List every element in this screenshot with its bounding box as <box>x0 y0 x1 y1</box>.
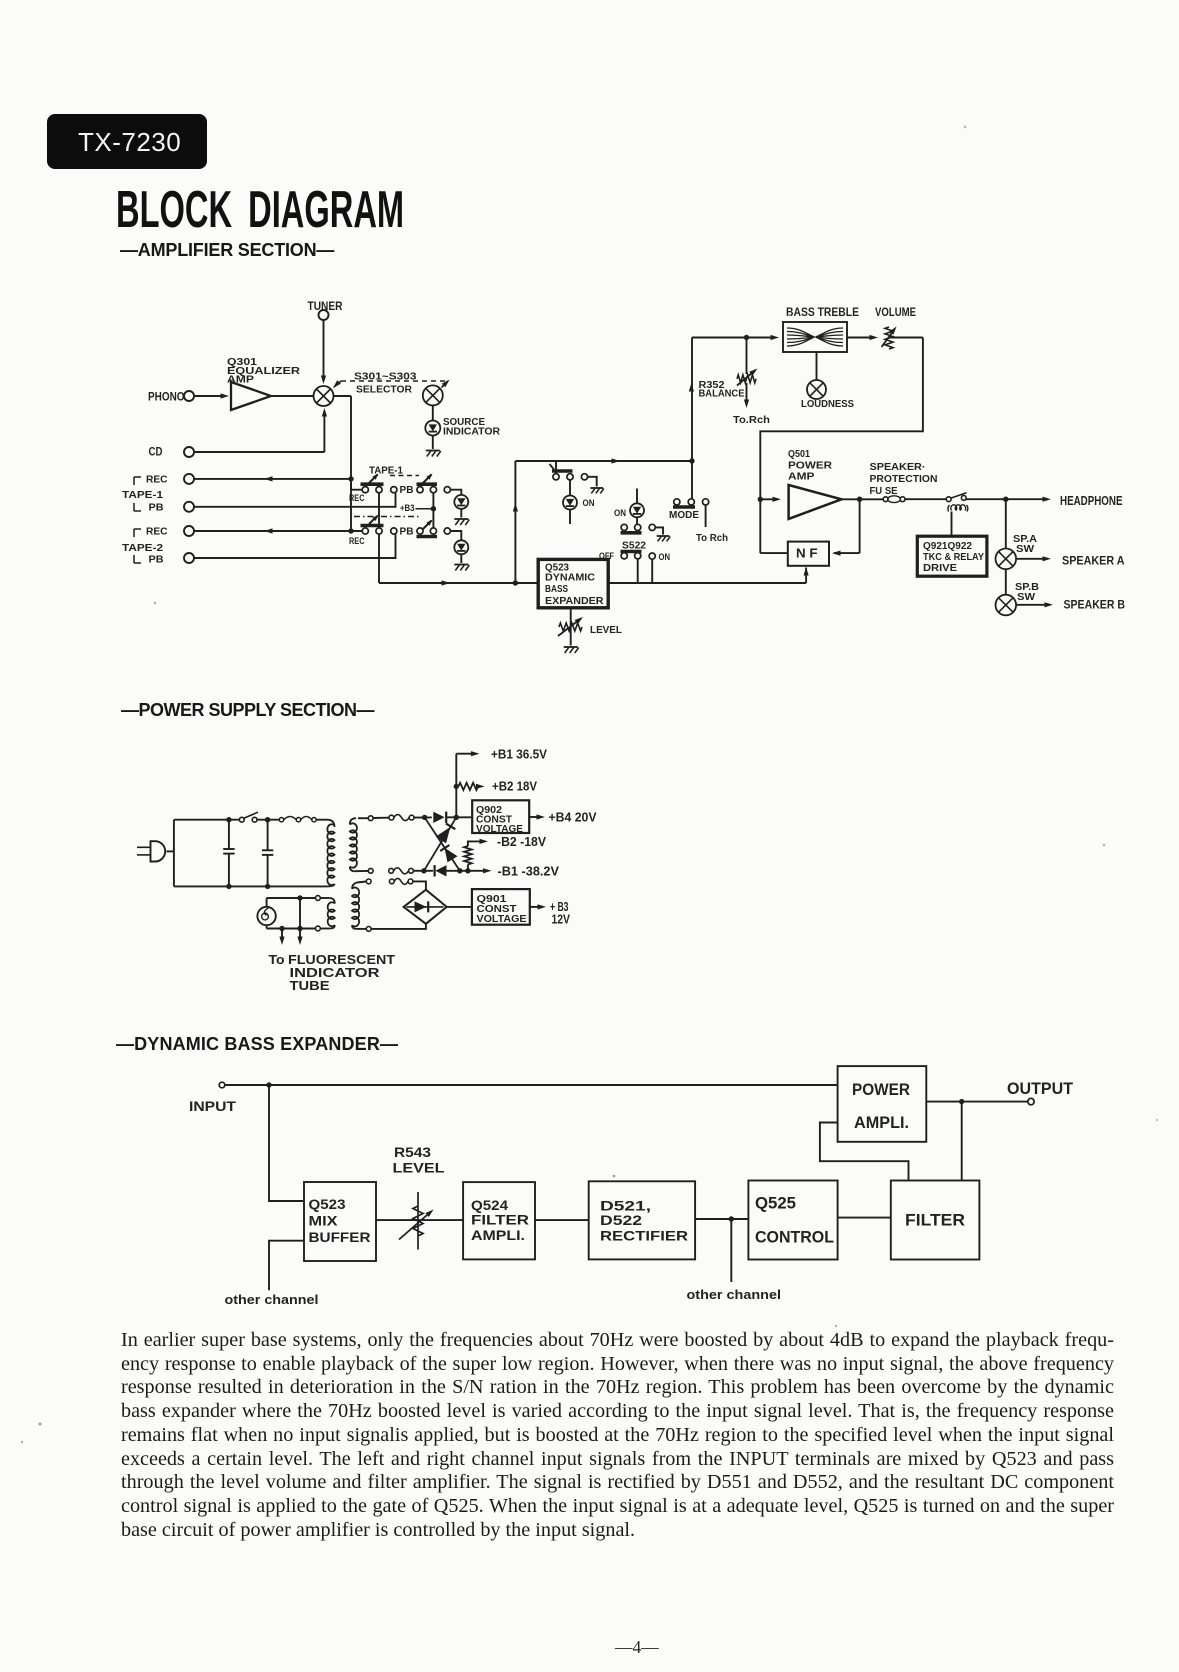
svg-text:VOLTAGE: VOLTAGE <box>477 913 527 925</box>
svg-text:SPEAKER B: SPEAKER B <box>1064 600 1126 612</box>
svg-text:SPEAKER·: SPEAKER· <box>870 462 926 473</box>
svg-text:TAPE-1: TAPE-1 <box>122 489 163 501</box>
svg-text:-B2 -18V: -B2 -18V <box>497 834 546 849</box>
svg-text:Q921Q922: Q921Q922 <box>923 541 972 552</box>
svg-text:To: To <box>269 953 285 967</box>
svg-text:CD: CD <box>149 447 163 459</box>
svg-text:AMPLI.: AMPLI. <box>854 1113 909 1132</box>
svg-text:PHONO: PHONO <box>148 390 185 404</box>
svg-text:+B1 36.5V: +B1 36.5V <box>491 747 547 762</box>
svg-text:REC: REC <box>349 493 365 504</box>
svg-text:+B2 18V: +B2 18V <box>492 779 537 794</box>
svg-text:N F: N F <box>796 546 818 561</box>
svg-text:REC: REC <box>349 536 365 547</box>
svg-text:PB: PB <box>149 554 164 566</box>
svg-text:DYNAMIC: DYNAMIC <box>545 573 595 584</box>
svg-text:INPUT: INPUT <box>189 1098 237 1114</box>
svg-text:DRIVE: DRIVE <box>923 563 957 574</box>
svg-text:BASS: BASS <box>545 584 568 595</box>
svg-text:other channel: other channel <box>687 1287 782 1302</box>
svg-text:LEVEL: LEVEL <box>393 1160 446 1176</box>
svg-text:LEVEL: LEVEL <box>590 624 623 636</box>
svg-text:SPEAKER A: SPEAKER A <box>1062 556 1125 568</box>
svg-text:+B4 20V: +B4 20V <box>549 810 597 825</box>
svg-text:VOLTAGE: VOLTAGE <box>476 824 523 835</box>
svg-text:ON: ON <box>614 508 626 519</box>
svg-text:VOLUME: VOLUME <box>875 305 916 319</box>
svg-text:TAPE-1: TAPE-1 <box>369 465 403 476</box>
svg-text:To.Rch: To.Rch <box>733 415 770 426</box>
svg-text:BASS TREBLE: BASS TREBLE <box>786 305 859 319</box>
svg-text:FLUORESCENT: FLUORESCENT <box>288 953 395 967</box>
svg-text:Q525: Q525 <box>755 1194 796 1213</box>
svg-text:PB: PB <box>149 502 164 514</box>
svg-text:12V: 12V <box>552 913 571 927</box>
svg-text:POWER: POWER <box>852 1080 910 1099</box>
svg-text:PB: PB <box>400 527 414 538</box>
svg-text:AMP: AMP <box>788 472 815 483</box>
svg-text:MIX: MIX <box>309 1213 339 1229</box>
svg-text:R543: R543 <box>394 1144 431 1160</box>
svg-text:FILTER: FILTER <box>471 1212 529 1228</box>
svg-text:To Rch: To Rch <box>696 533 728 544</box>
svg-text:-B1 -38.2V: -B1 -38.2V <box>498 864 560 879</box>
svg-text:BALANCE: BALANCE <box>699 388 745 400</box>
svg-text:ON: ON <box>659 552 671 563</box>
svg-text:HEADPHONE: HEADPHONE <box>1060 493 1123 508</box>
svg-text:CONTROL: CONTROL <box>755 1228 834 1247</box>
svg-text:POWER: POWER <box>788 461 833 472</box>
svg-text:RECTIFIER: RECTIFIER <box>600 1228 688 1244</box>
svg-text:D522: D522 <box>600 1212 642 1228</box>
svg-text:SW: SW <box>1016 544 1035 555</box>
svg-text:PB: PB <box>400 485 414 496</box>
svg-text:INDICATOR: INDICATOR <box>443 426 500 438</box>
svg-text:PROTECTION: PROTECTION <box>870 474 938 485</box>
svg-text:OUTPUT: OUTPUT <box>1007 1079 1074 1098</box>
svg-text:BUFFER: BUFFER <box>309 1229 371 1245</box>
svg-text:other channel: other channel <box>225 1292 319 1307</box>
svg-text:REC: REC <box>146 474 168 486</box>
svg-text:Q523: Q523 <box>309 1196 346 1212</box>
svg-text:TAPE-2: TAPE-2 <box>122 542 163 554</box>
svg-text:Q501: Q501 <box>788 449 810 460</box>
svg-text:SELECTOR: SELECTOR <box>356 384 412 396</box>
svg-text:TKC & RELAY: TKC & RELAY <box>923 552 984 563</box>
svg-text:EXPANDER: EXPANDER <box>545 596 604 607</box>
svg-text:+B3: +B3 <box>400 503 415 514</box>
svg-text:LOUDNESS: LOUDNESS <box>801 398 854 410</box>
svg-text:ON: ON <box>583 498 595 509</box>
svg-text:AMPLI.: AMPLI. <box>471 1227 525 1243</box>
svg-text:MODE: MODE <box>669 510 699 521</box>
svg-text:SW: SW <box>1017 592 1036 603</box>
svg-text:INDICATOR: INDICATOR <box>290 966 380 980</box>
svg-text:TUBE: TUBE <box>290 979 330 993</box>
svg-text:REC: REC <box>146 526 168 538</box>
svg-text:FILTER: FILTER <box>905 1211 965 1230</box>
